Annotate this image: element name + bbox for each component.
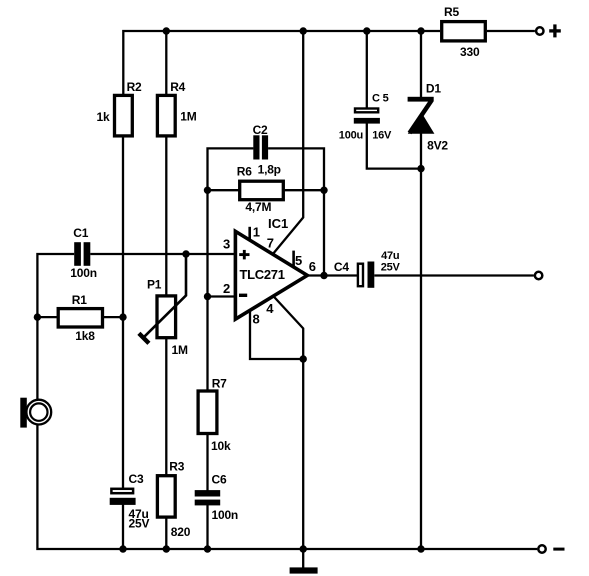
svg-text:100n: 100n xyxy=(70,266,97,280)
terminal - output bottom right xyxy=(538,545,545,552)
capacitor C1 plates xyxy=(74,242,90,266)
resistor R2 xyxy=(115,95,133,135)
zener diode D1 xyxy=(408,97,435,134)
resistor R1 xyxy=(58,309,102,327)
microphone MIC xyxy=(20,398,51,428)
svg-text:10k: 10k xyxy=(211,439,231,453)
svg-text:R6: R6 xyxy=(237,165,252,179)
svg-text:1M: 1M xyxy=(172,343,188,357)
svg-text:4: 4 xyxy=(266,301,274,316)
node rail-D1 bottom xyxy=(417,545,424,552)
wire C1 left lead and mic top lead xyxy=(37,254,74,400)
node rail-R3 xyxy=(163,545,170,552)
wire R1 left lead xyxy=(37,316,57,318)
node R1-R2 xyxy=(119,313,126,320)
capacitor C3 plates xyxy=(111,489,133,493)
plus sign top right xyxy=(549,24,561,37)
resistor R7 xyxy=(198,391,217,434)
node pin4-pin8 xyxy=(300,355,307,362)
node rail-C3 xyxy=(119,545,126,552)
svg-text:47u: 47u xyxy=(381,250,399,262)
minus sign bottom right xyxy=(553,548,564,551)
svg-text:820: 820 xyxy=(171,525,191,539)
svg-text:C2: C2 xyxy=(253,123,268,137)
op-amp minus input sign xyxy=(239,294,247,297)
svg-text:C 5: C 5 xyxy=(372,93,389,105)
wire ground stub xyxy=(302,359,304,570)
svg-text:5: 5 xyxy=(295,253,302,268)
svg-text:C1: C1 xyxy=(73,226,88,240)
wire C2 left lead and inverting column down to R7 xyxy=(208,148,254,390)
wire supply drop from rail to op-amp pin 7 xyxy=(273,31,303,254)
wire pin 6 output to C4 xyxy=(307,274,357,276)
node R6 left xyxy=(204,187,211,194)
potentiometer P1 body xyxy=(157,296,176,338)
capacitor C2 plates xyxy=(253,135,268,159)
svg-text:1M: 1M xyxy=(180,110,196,124)
svg-text:8: 8 xyxy=(253,312,260,327)
svg-text:IC1: IC1 xyxy=(268,216,288,231)
resistor R4 xyxy=(157,95,175,135)
terminal output middle right xyxy=(535,272,542,279)
ground symbol xyxy=(290,567,318,573)
wire C4 right lead to output terminal xyxy=(374,274,534,276)
svg-text:1,8p: 1,8p xyxy=(258,163,281,177)
svg-text:1k: 1k xyxy=(97,110,110,124)
node output-feedback xyxy=(320,272,327,279)
wire C6 bottom lead xyxy=(206,505,208,549)
svg-text:R2: R2 xyxy=(127,80,142,94)
wire pin 4 drop xyxy=(274,297,304,360)
svg-text:6: 6 xyxy=(309,259,316,274)
svg-text:R7: R7 xyxy=(212,377,227,391)
pin 5 tick xyxy=(292,251,295,267)
svg-text:R1: R1 xyxy=(72,293,87,307)
svg-text:R3: R3 xyxy=(169,459,184,473)
capacitor C5 plates xyxy=(355,109,378,113)
svg-text:8V2: 8V2 xyxy=(427,139,448,153)
wire R4 bottom run to P1 top xyxy=(165,137,167,295)
wire mic bottom lead and bottom ground rail xyxy=(37,425,537,549)
op-amp IC1 TLC271 triangle xyxy=(235,231,307,319)
svg-text:25V: 25V xyxy=(381,262,401,274)
svg-text:4,7M: 4,7M xyxy=(245,200,271,214)
wire pin 2 lead xyxy=(208,295,236,297)
svg-text:100n: 100n xyxy=(212,508,239,522)
svg-text:C3: C3 xyxy=(129,472,144,486)
wire R2 bottom run to C3 xyxy=(122,137,124,488)
wire R1 right lead xyxy=(104,316,124,318)
wire P1 bottom to R3 top xyxy=(165,339,167,475)
svg-text:100u: 100u xyxy=(339,130,363,142)
pin 1 tick xyxy=(248,227,251,241)
svg-text:25V: 25V xyxy=(129,517,150,531)
wire R6 left lead xyxy=(208,189,239,191)
svg-text:C4: C4 xyxy=(334,260,349,274)
svg-text:3: 3 xyxy=(223,237,230,252)
wire R7 bottom to C6 xyxy=(206,435,208,491)
node mic-R1 xyxy=(34,313,41,320)
potentiometer P1 end bar xyxy=(139,333,149,343)
resistor R6 xyxy=(240,181,284,200)
svg-text:1: 1 xyxy=(253,225,260,240)
potentiometer P1 wiper arm xyxy=(144,254,186,337)
wire pin 8 drop xyxy=(250,311,303,359)
wire C5 bottom lead joining D1 column xyxy=(367,123,421,169)
node rail-R4 xyxy=(163,27,170,34)
node rail-C6 xyxy=(204,545,211,552)
wire pin 3 input net from C1 to op-amp xyxy=(90,253,235,255)
resistor R3 xyxy=(157,476,175,517)
svg-text:16V: 16V xyxy=(372,130,392,142)
wire R4 top lead xyxy=(165,31,167,95)
svg-text:2: 2 xyxy=(223,281,230,296)
svg-text:R5: R5 xyxy=(444,5,459,19)
svg-text:C6: C6 xyxy=(212,473,227,487)
op-amp plus input sign xyxy=(239,250,249,260)
svg-text:1k8: 1k8 xyxy=(75,329,95,343)
node C5-D1 xyxy=(417,165,424,172)
node pin2 xyxy=(204,293,211,300)
wire C3 bottom lead xyxy=(122,505,124,550)
node rail-C5 xyxy=(363,27,370,34)
resistor R5 xyxy=(442,22,486,41)
svg-text:7: 7 xyxy=(267,236,274,251)
wire R6 right lead xyxy=(285,189,325,191)
capacitor C4 plates xyxy=(358,264,363,287)
wire C5 top lead xyxy=(366,31,368,108)
svg-text:D1: D1 xyxy=(426,81,441,95)
svg-text:330: 330 xyxy=(460,45,480,59)
node rail-ground xyxy=(300,545,307,552)
svg-text:P1: P1 xyxy=(147,278,162,292)
wire R5 right lead to + terminal xyxy=(487,30,535,32)
terminal + output top right xyxy=(536,27,543,34)
node rail-supply drop xyxy=(300,27,307,34)
wire R3 bottom lead xyxy=(165,518,167,549)
wire C2 right lead and feedback column to output node xyxy=(268,148,324,275)
node R6 right xyxy=(320,187,327,194)
node rail-D1 xyxy=(417,27,424,34)
wire D1 anode column down to bottom rail xyxy=(420,133,422,549)
capacitor C6 plates xyxy=(195,490,221,505)
wire top positive rail with R2 top lead xyxy=(123,31,440,95)
node pin3-P1 wiper xyxy=(182,250,189,257)
wire D1 top lead xyxy=(420,31,422,98)
svg-text:R4: R4 xyxy=(170,80,185,94)
svg-text:TLC271: TLC271 xyxy=(240,267,285,282)
